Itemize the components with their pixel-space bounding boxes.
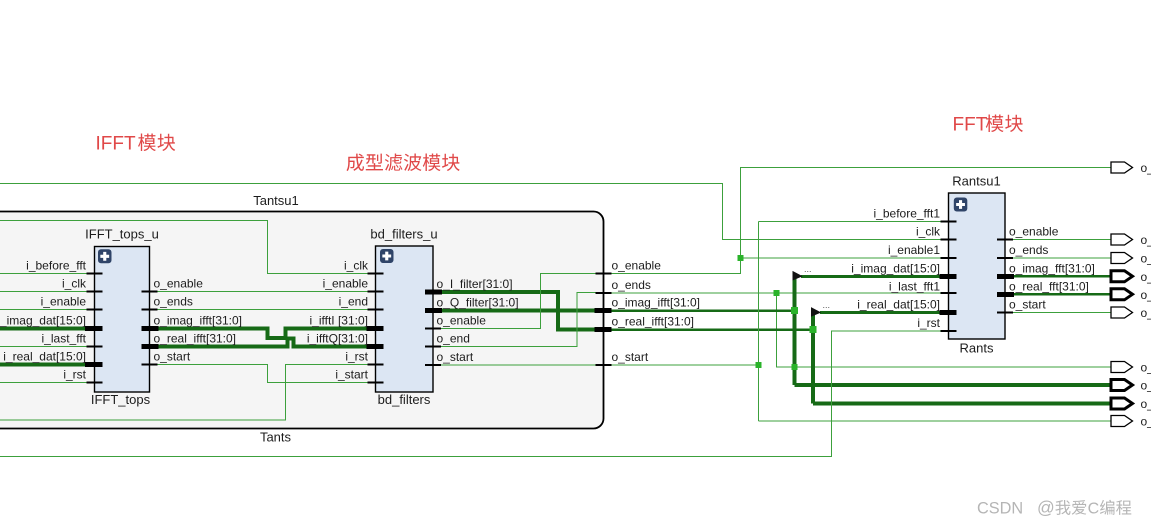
svg-text:o_: o_ bbox=[1141, 288, 1151, 302]
output port 1 bbox=[1111, 162, 1133, 173]
svg-text:o_enable: o_enable bbox=[437, 314, 487, 328]
svg-text:i_enable1: i_enable1 bbox=[888, 243, 940, 257]
wire i_clk feed to bd_filters bbox=[0, 221, 368, 274]
wire into IFFT i_rst bbox=[0, 382, 87, 384]
svg-text:o_imag_fft[31:0]: o_imag_fft[31:0] bbox=[1009, 261, 1095, 275]
stub bd i_start bbox=[368, 382, 384, 384]
junction imag net bbox=[791, 307, 798, 314]
red label FFT module bbox=[953, 115, 1023, 136]
wire Rantsu1 o_start to port bbox=[1013, 312, 1112, 314]
bus Rantsu1 o_imag_fft to port bbox=[1013, 275, 1112, 278]
bus stub IFFT i_real_dat bbox=[85, 362, 103, 367]
svg-text:o_: o_ bbox=[1141, 161, 1151, 175]
bus o_imag_ifft to i_ifftI with jog bbox=[158, 329, 368, 339]
bus stub bd o_I_filter bbox=[425, 290, 442, 295]
svg-text:o_enable: o_enable bbox=[1009, 225, 1059, 239]
wire IFFT o_enable to bd i_enable bbox=[158, 291, 368, 293]
svg-text:IFFT_tops: IFFT_tops bbox=[91, 392, 151, 407]
svg-text:...: ... bbox=[804, 264, 812, 274]
bus bd o_I_filter to port o_real_ifft bbox=[441, 292, 596, 330]
bus bd o_Q_filter to port o_imag_ifft bbox=[441, 309, 596, 313]
svg-text:...: ... bbox=[823, 300, 831, 310]
bus Rantsu1 o_real_fft to port bbox=[1013, 293, 1112, 296]
svg-text:o_ends: o_ends bbox=[154, 295, 193, 309]
red label IFFT module bbox=[96, 134, 176, 155]
output port 8 (bus) bbox=[1111, 380, 1133, 391]
output port 2 bbox=[1111, 234, 1133, 245]
junction crossing artifact bbox=[792, 364, 798, 370]
svg-text:bd_filters: bd_filters bbox=[378, 392, 431, 407]
svg-text:C: C bbox=[1088, 501, 1100, 518]
output port 7 bbox=[1111, 362, 1133, 373]
stub port o_start bbox=[596, 364, 612, 366]
junction real net bbox=[810, 326, 817, 333]
svg-text:i_end: i_end bbox=[339, 295, 368, 309]
stub bd i_clk bbox=[368, 273, 384, 275]
svg-text:o_start: o_start bbox=[1009, 298, 1046, 312]
bus stub port o_imag_ifft bbox=[595, 308, 612, 313]
wire into IFFT i_before_fft bbox=[0, 273, 87, 275]
stub IFFT i_clk bbox=[87, 291, 103, 293]
svg-text:o_real_ifft[31:0]: o_real_ifft[31:0] bbox=[154, 332, 237, 346]
wire ends branch down to output port bbox=[777, 293, 1112, 367]
svg-text:o_: o_ bbox=[1141, 397, 1151, 411]
wire Rantsu1 o_enable to port bbox=[1013, 239, 1112, 241]
bus real net to output port bbox=[813, 402, 1112, 406]
bus stub IFFT o_real_ifft bbox=[142, 344, 159, 349]
stub Rantsu1 i_clk bbox=[941, 239, 957, 241]
stub bd o_start bbox=[425, 364, 441, 366]
svg-text:i_enable: i_enable bbox=[41, 295, 87, 309]
bus stub Rantsu1 o_real_fft bbox=[997, 292, 1014, 297]
wire i_rst feed to bd_filters bbox=[0, 365, 368, 421]
svg-text:CSDN: CSDN bbox=[977, 500, 1023, 518]
junction start net bbox=[756, 362, 762, 368]
bus wire into IFFT i_real_dat[15:0] bbox=[0, 363, 87, 367]
svg-text:i_start: i_start bbox=[335, 368, 368, 382]
wire rst net to Rantsu1 i_rst bbox=[0, 331, 941, 457]
stub IFFT i_rst bbox=[87, 382, 103, 384]
hierarchical container Tantsu1 bbox=[0, 212, 604, 429]
wire bd o_start to port o_start bbox=[441, 364, 596, 366]
stub bd i_enable bbox=[368, 291, 384, 293]
stub bd i_end bbox=[368, 309, 384, 311]
svg-text:i_rst: i_rst bbox=[345, 350, 368, 364]
svg-text:i_last_fft: i_last_fft bbox=[42, 332, 87, 346]
stub bd o_enable bbox=[425, 328, 441, 330]
svg-text:IFFT_tops_u: IFFT_tops_u bbox=[85, 227, 159, 242]
output port 3 bbox=[1111, 253, 1133, 264]
svg-text:o_real_ifft[31:0]: o_real_ifft[31:0] bbox=[612, 315, 695, 329]
svg-text:o_: o_ bbox=[1141, 306, 1151, 320]
wire start net to Rantsu1 i_before_fft1 bbox=[759, 221, 941, 223]
expand icon IFFT_tops_u bbox=[98, 249, 112, 263]
wire into IFFT i_enable bbox=[0, 309, 87, 311]
svg-text:Rantsu1: Rantsu1 bbox=[952, 174, 1000, 189]
svg-text:Tantsu1: Tantsu1 bbox=[253, 193, 299, 208]
bus stub IFFT o_imag_ifft bbox=[142, 326, 159, 331]
bus to Rantsu1 i_imag_dat bbox=[801, 275, 941, 278]
svg-text:i_rst: i_rst bbox=[917, 316, 940, 330]
svg-text:o_ends: o_ends bbox=[612, 278, 651, 292]
svg-text:o_imag_ifft[31:0]: o_imag_ifft[31:0] bbox=[612, 296, 701, 310]
bus stub IFFT i_imag_dat bbox=[85, 326, 103, 331]
wire start net to output port bbox=[759, 420, 1112, 422]
svg-text:o_start: o_start bbox=[612, 350, 649, 364]
red label shaping filter module bbox=[346, 154, 459, 172]
output port 9 (bus) bbox=[1111, 398, 1133, 409]
stub Rantsu1 i_enable1 bbox=[941, 257, 957, 259]
stub port o_enable bbox=[596, 273, 612, 275]
svg-text:i_real_dat[15:0]: i_real_dat[15:0] bbox=[3, 350, 86, 364]
svg-text:i_imag_dat[15:0]: i_imag_dat[15:0] bbox=[0, 314, 86, 328]
bus o_real_ifft to i_ifftQ with jog bbox=[158, 339, 368, 347]
svg-text:o_ends: o_ends bbox=[1009, 243, 1048, 257]
svg-text:i_before_fft: i_before_fft bbox=[26, 259, 86, 273]
wire into IFFT i_clk bbox=[0, 291, 87, 293]
stub Rantsu1 o_ends bbox=[997, 257, 1013, 259]
stub IFFT o_enable bbox=[142, 291, 158, 293]
svg-text:o_: o_ bbox=[1141, 379, 1151, 393]
svg-text:o_: o_ bbox=[1141, 361, 1151, 375]
bus stub port o_real_ifft bbox=[595, 327, 612, 332]
svg-text:Rants: Rants bbox=[960, 341, 994, 356]
output port 10 bbox=[1111, 416, 1133, 427]
bus imag net to output port bbox=[795, 383, 1112, 387]
stub bd o_end bbox=[425, 346, 441, 348]
block Rantsu1 body bbox=[949, 193, 1006, 339]
stub bd i_rst bbox=[368, 364, 384, 366]
wire bd o_end to port o_ends bbox=[441, 293, 596, 347]
svg-text:o_: o_ bbox=[1141, 233, 1151, 247]
output port 6 bbox=[1111, 307, 1133, 318]
stub IFFT i_before_fft bbox=[87, 273, 103, 275]
output port 4 (bus) bbox=[1111, 271, 1133, 282]
stub port o_ends bbox=[596, 292, 612, 294]
svg-text:o_Q_filter[31:0]: o_Q_filter[31:0] bbox=[437, 296, 519, 310]
svg-text:Tants: Tants bbox=[260, 430, 292, 445]
svg-text:@: @ bbox=[1037, 498, 1055, 518]
bus stub bd o_Q_filter bbox=[425, 308, 442, 313]
svg-text:o_enable: o_enable bbox=[154, 277, 204, 291]
svg-text:o_start: o_start bbox=[437, 350, 474, 364]
wire enable branch to Rantsu1 i_enable1 bbox=[741, 257, 941, 259]
stub IFFT i_last_fft bbox=[87, 346, 103, 348]
svg-text:o_I_filter[31:0]: o_I_filter[31:0] bbox=[437, 277, 513, 291]
stub Rantsu1 i_last_fft1 bbox=[941, 292, 957, 294]
wire IFFT o_ends to bd i_end bbox=[158, 309, 368, 311]
stub Rantsu1 o_enable bbox=[997, 239, 1013, 241]
wire into IFFT i_last_fft bbox=[0, 346, 87, 348]
wire clk net to Rantsu1 i_clk bbox=[0, 184, 941, 240]
junction enable net bbox=[738, 255, 744, 261]
bus vertical real net bbox=[811, 313, 815, 404]
wire port o_start to junction bbox=[612, 364, 759, 366]
flag arrow i_real_dat bbox=[811, 307, 821, 317]
junction ends net bbox=[774, 290, 780, 296]
wire bd o_enable to port o_enable bbox=[441, 274, 596, 329]
svg-text:IFFT: IFFT bbox=[96, 134, 136, 155]
wire port o_enable up to output port bbox=[612, 168, 1112, 274]
svg-text:i_last_fft1: i_last_fft1 bbox=[889, 279, 940, 293]
svg-text:bd_filters_u: bd_filters_u bbox=[370, 227, 437, 242]
block IFFT_tops_u body bbox=[95, 247, 150, 393]
stub Rantsu1 o_start bbox=[997, 312, 1013, 314]
svg-text:i_imag_dat[15:0]: i_imag_dat[15:0] bbox=[851, 261, 940, 275]
bus port o_imag_ifft to junction bbox=[612, 309, 795, 312]
svg-text:FFT: FFT bbox=[953, 115, 988, 136]
block bd_filters_u body bbox=[376, 246, 434, 392]
svg-text:o_end: o_end bbox=[437, 332, 470, 346]
wire IFFT o_start to bd i_start bbox=[158, 365, 368, 383]
svg-text:i_clk: i_clk bbox=[916, 225, 941, 239]
bus to Rantsu1 i_real_dat bbox=[820, 311, 941, 314]
svg-text:i_before_fft1: i_before_fft1 bbox=[874, 207, 941, 221]
expand icon Rantsu1 bbox=[954, 198, 968, 212]
stub IFFT i_enable bbox=[87, 309, 103, 311]
svg-text:i_ifftI [31:0]: i_ifftI [31:0] bbox=[310, 314, 368, 328]
svg-text:i_real_dat[15:0]: i_real_dat[15:0] bbox=[857, 298, 940, 312]
svg-text:i_rst: i_rst bbox=[63, 368, 86, 382]
bus stub bd i_ifftQ bbox=[367, 344, 384, 349]
wire Rantsu1 o_ends to port bbox=[1013, 257, 1112, 259]
expand icon bd_filters_u bbox=[380, 249, 394, 263]
output port 5 (bus) bbox=[1111, 289, 1133, 300]
wire start net vertical bbox=[758, 222, 760, 422]
svg-text:o_start: o_start bbox=[154, 350, 191, 364]
bus vertical imag net bbox=[793, 277, 797, 385]
svg-text:o_imag_ifft[31:0]: o_imag_ifft[31:0] bbox=[154, 314, 243, 328]
svg-text:i_clk: i_clk bbox=[62, 277, 87, 291]
bus stub bd i_ifftI bbox=[367, 326, 384, 331]
stub IFFT o_start bbox=[142, 364, 158, 366]
svg-text:o_: o_ bbox=[1141, 252, 1151, 266]
bus wire into IFFT i_imag_dat[15:0] bbox=[0, 327, 87, 331]
watermark CSDN bbox=[977, 498, 1131, 518]
svg-text:o_enable: o_enable bbox=[612, 259, 662, 273]
wire port o_ends to Rantsu1 i_last_fft1 bbox=[612, 292, 941, 294]
stub IFFT o_ends bbox=[142, 309, 158, 311]
svg-text:o_: o_ bbox=[1141, 270, 1151, 284]
svg-text:o_: o_ bbox=[1141, 415, 1151, 429]
stub Rantsu1 i_rst bbox=[941, 330, 957, 332]
bus stub Rantsu1 o_imag_fft bbox=[997, 274, 1014, 279]
bus stub Rantsu1 i_real_dat bbox=[940, 310, 957, 315]
svg-text:o_real_fft[31:0]: o_real_fft[31:0] bbox=[1009, 279, 1089, 293]
svg-text:i_clk: i_clk bbox=[344, 259, 369, 273]
svg-text:i_ifftQ[31:0]: i_ifftQ[31:0] bbox=[307, 332, 368, 346]
bus stub Rantsu1 i_imag_dat bbox=[940, 274, 957, 279]
svg-text:i_enable: i_enable bbox=[323, 277, 369, 291]
flag arrow i_imag_dat bbox=[793, 271, 803, 281]
stub Rantsu1 i_before_fft1 bbox=[941, 221, 957, 223]
bus port o_real_ifft to junction bbox=[612, 328, 814, 331]
